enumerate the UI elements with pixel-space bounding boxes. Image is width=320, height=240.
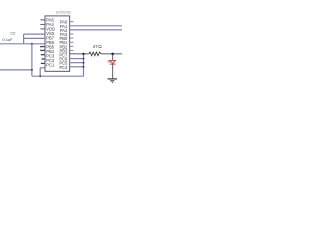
svg-text:Ω: Ω (98, 44, 102, 49)
svg-text:PC1: PC1 (46, 63, 55, 68)
svg-text:9205C8B: 9205C8B (56, 11, 72, 15)
svg-text:C2: C2 (10, 31, 16, 36)
svg-text:0.1uF: 0.1uF (2, 37, 13, 42)
svg-text:PC4: PC4 (59, 65, 68, 70)
